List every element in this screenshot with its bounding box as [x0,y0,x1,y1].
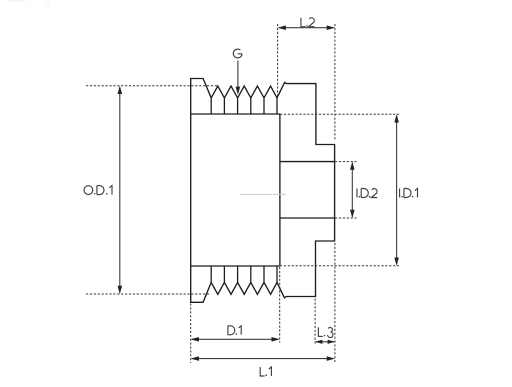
bore top line [280,161,335,163]
top groove stem 3 [237,98,239,114]
bottom groove stem 6 [276,266,278,282]
top groove stem 4 [250,98,252,114]
arrowhead L.3 left [315,340,322,344]
extension line L.3 left [314,299,316,346]
arrowhead L.2 left [278,25,286,30]
dimension line O.D.1 [119,87,121,292]
label G [233,49,242,58]
arrowhead I.D.1 bottom [394,258,399,266]
dimension line D.1 [192,338,278,340]
extension line O.D.1 top [86,85,218,87]
top groove stem 6 [276,98,278,114]
arrowhead I.D.2 bottom [350,210,355,218]
extension line L.2 left [277,24,279,98]
bottom groove stem 3 [237,266,239,282]
arrowhead L.1 left [191,356,199,361]
extension line L.2 right [334,24,336,140]
arrowhead L.1 right [327,356,335,361]
top groove stem 5 [263,98,265,114]
bore bottom line [280,217,335,219]
arrowhead L.3 right [328,340,335,344]
bottom groove stem 1 [210,266,212,282]
arrowhead D.1 right [272,337,280,342]
bottom groove stem 4 [250,266,252,282]
label L.1 [260,367,264,376]
extension line I.D.2 bottom [335,217,357,219]
dimension line L.1 [192,358,334,360]
arrowhead I.D.1 top [394,114,399,122]
label L.2 [301,18,306,27]
extension line L.1/L.3 right [334,243,336,362]
top groove stem 1 [210,98,212,114]
extension line I.D.1 top [280,113,399,115]
label I.D.2 [356,189,358,198]
label O.D.1 [84,186,93,195]
top rim base line [191,113,280,115]
watermark remnant top-left [9,0,53,7]
arrowhead O.D.1 bottom [118,286,123,294]
extension line D.1 right [279,267,281,343]
dimension line I.D.2 [351,163,353,217]
faint axis centerline [240,193,286,195]
extension line O.D.1 bottom [86,293,210,295]
bottom rim base line [191,265,280,267]
extension line I.D.2 top [335,161,357,163]
arrowhead D.1 left [191,337,199,342]
arrowhead O.D.1 top [118,86,123,94]
top groove stem 2 [223,98,225,114]
arrowhead L.2 right [327,25,335,30]
label D.1 [228,326,235,335]
extension line I.D.1 bottom [280,265,399,267]
dimension line L.2 [279,27,334,29]
hub left face line [279,114,281,266]
arrowhead G groove [236,87,241,95]
bottom groove stem 5 [263,266,265,282]
leader line G [237,61,239,88]
label I.D.1 [399,189,401,198]
pulley cross-section outline with poly-V groove profile [191,79,335,303]
dimension line L.3 [316,341,334,343]
dimension line I.D.1 [396,116,398,265]
label L.3 [318,327,322,336]
arrowhead I.D.2 top [350,162,355,170]
bottom groove stem 2 [223,266,225,282]
extension line L.1/D.1 left [190,304,192,364]
